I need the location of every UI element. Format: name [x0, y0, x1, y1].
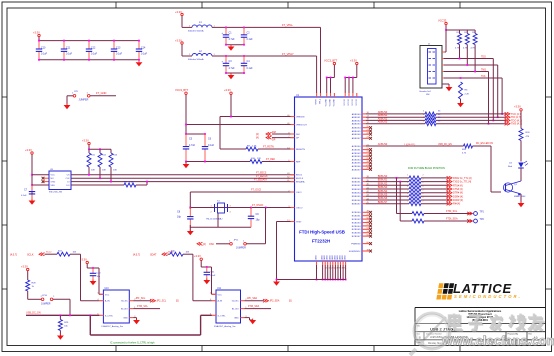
- svg-text:0: 0: [423, 117, 424, 119]
- offpage connector TDO: [505, 119, 523, 123]
- capacitor C14: [136, 41, 148, 60]
- svg-text:A_IN: A_IN: [105, 300, 110, 303]
- wire S_CTRL link to U11: [90, 315, 212, 335]
- svg-text:2.2K: 2.2K: [252, 145, 257, 147]
- svg-text:FT_VPLL: FT_VPLL: [282, 23, 294, 27]
- capacitor C4 0.1uF: [241, 56, 253, 73]
- green note FOR FUTURE BUILD POSITION: [408, 167, 445, 170]
- wire BDBUS2 row: [366, 184, 448, 186]
- svg-text:FT_EEDATA: FT_EEDATA: [254, 179, 267, 182]
- svg-text:ACBUS7: ACBUS7: [352, 168, 362, 171]
- ground (Q1): [518, 202, 525, 208]
- wire JTAG drop TDI: [497, 65, 499, 118]
- wire JP11 to OSCO: [246, 208, 265, 244]
- svg-text:TXD2 0x_TTL [4]: TXD2 0x_TTL [4]: [453, 181, 471, 184]
- ic U10 pin names: [105, 294, 128, 319]
- ic U1 top pin VCORE: [330, 93, 332, 106]
- wire R28 to JP10: [28, 298, 42, 300]
- wire TEST to ground: [276, 222, 291, 281]
- junction dots C12: [88, 40, 90, 61]
- junction dots OSCO row: [189, 207, 266, 209]
- ground (J1): [446, 86, 453, 92]
- offpage connector SCLK: [10, 253, 45, 257]
- net label FT_VPLL: [282, 23, 294, 27]
- svg-text:OSCO: OSCO: [296, 207, 303, 209]
- svg-text:JPF_SDA: JPF_SDA: [247, 297, 258, 300]
- ic U1 right pin BCBUS6: [352, 231, 372, 235]
- wire J1 row TDI: [444, 64, 498, 66]
- wire RESETN row: [220, 148, 295, 150]
- ic U1 right pin ADBUS5: [352, 129, 372, 133]
- wire OSCI row: [190, 191, 294, 193]
- eeprom U9 93LC56C body: [49, 169, 71, 194]
- wire TCK row: [366, 113, 506, 115]
- svg-text:FT_OSCI: FT_OSCI: [251, 189, 261, 192]
- svg-text:G0_NC: G0_NC: [232, 301, 239, 303]
- net label ADBUS0: [378, 111, 388, 114]
- resistor R11 10K: [87, 149, 96, 175]
- svg-text:DO: DO: [66, 185, 70, 187]
- svg-text:FSA4157_Analog_Sw: FSA4157_Analog_Sw: [214, 325, 236, 328]
- wire J1 row TMS: [444, 71, 489, 73]
- net label BDBUS7: [378, 201, 388, 204]
- resistor RN BDBUS3: [407, 186, 424, 191]
- svg-text:FT_EECS: FT_EECS: [256, 173, 267, 175]
- svg-text:JUMPER: JUMPER: [79, 98, 89, 101]
- power VCC3_BTT (VCORE): [324, 58, 338, 64]
- svg-text:DTR# [4]: DTR# [4]: [453, 192, 463, 195]
- logo LATTICE text: [453, 281, 512, 296]
- junction dots C11: [63, 40, 65, 61]
- svg-text:VPLL: VPLL: [320, 98, 322, 104]
- svg-text:USB_DC_EN: USB_DC_EN: [438, 144, 452, 146]
- ground (C41): [203, 279, 210, 285]
- resistor RN BDBUS7: [407, 201, 424, 206]
- titleblock company text: [459, 310, 502, 322]
- svg-text:BDBUS5: BDBUS5: [352, 196, 362, 198]
- junction VCC33 rail: [445, 29, 447, 31]
- ic U1 right pin BDBUS3: [352, 187, 370, 191]
- svg-text:0: 0: [423, 120, 424, 122]
- logo SEMICONDUCTOR text: [454, 294, 522, 299]
- svg-text:SCLK: SCLK: [27, 253, 34, 256]
- jumper JP10: [41, 295, 56, 306]
- wire JP9 to ground: [67, 96, 73, 105]
- svg-text:IC connected to A when S_CTRL: IC connected to A when S_CTRL is high: [110, 341, 155, 344]
- net label QM-021 note: [404, 144, 415, 146]
- ic U1 right pin BCBUS7: [352, 234, 372, 238]
- junction dots USB_DC_ON: [60, 314, 92, 316]
- svg-text:BCBUS3: BCBUS3: [352, 222, 362, 224]
- ic U1 right pin BCBUS2: [352, 217, 372, 221]
- power +3.3V (VREGIN): [224, 88, 232, 94]
- wire bottom rail of cap bank: [39, 59, 139, 61]
- resistor R14 33: [423, 111, 441, 116]
- wire BDBUS6 row: [366, 199, 448, 201]
- ic U1 right pin ACBUS4: [352, 158, 372, 162]
- offpage connector TXD2: [447, 180, 472, 184]
- power +3.3V (pullups R11-R13): [82, 139, 90, 150]
- svg-text:FT_EECLK: FT_EECLK: [256, 176, 268, 178]
- wire EECS row (CS to chip): [71, 174, 295, 176]
- svg-text:1: 1: [407, 197, 408, 199]
- ic U1 right pin ADBUS7: [352, 137, 372, 141]
- svg-text:[4,5,7]: [4,5,7]: [10, 253, 17, 256]
- svg-text:+3.3V: +3.3V: [175, 39, 182, 43]
- svg-text:CLK: CLK: [65, 178, 70, 180]
- svg-text:TDO: TDO: [481, 56, 486, 58]
- ic U1 right pin ADBUS0: [352, 112, 370, 116]
- svg-text:FTDI_SCL: FTDI_SCL: [137, 306, 149, 308]
- capacitor C7 0.1uF: [21, 185, 35, 201]
- svg-text:[4,5,7]: [4,5,7]: [133, 253, 140, 256]
- svg-text:1 (QM-021): 1 (QM-021): [404, 144, 415, 146]
- ic U1 left pin DP: [288, 136, 299, 140]
- ic U11 pin names: [218, 294, 240, 319]
- offpage connector RXD2: [447, 176, 472, 180]
- titleblock doc row: [417, 332, 538, 339]
- ic U1 right pin BCBUS5: [352, 228, 372, 232]
- titleblock cell dividers: [424, 332, 527, 346]
- wire SDAT to U11 A_IN: [193, 254, 212, 301]
- svg-text:ACBUS1: ACBUS1: [352, 149, 362, 152]
- svg-text:BDBUS0: BDBUS0: [352, 178, 362, 180]
- power VCC3_BTT (left): [175, 88, 189, 94]
- svg-text:SM: SM: [426, 94, 429, 96]
- wire VCCIO rail: [344, 65, 357, 93]
- svg-text:C10: C10: [41, 46, 46, 49]
- offpage connector OSC enable: [197, 242, 214, 246]
- wire VCC33 vertical: [442, 25, 446, 52]
- ic U1 top pin VPLL: [320, 93, 322, 104]
- svg-text:7M-12.000MAAJ: 7M-12.000MAAJ: [206, 217, 222, 220]
- net label USB_DC_ON: [26, 312, 41, 315]
- wire BDBUS7 row: [366, 203, 448, 205]
- svg-text:VCORE: VCORE: [333, 98, 335, 106]
- wire pullup rail J1: [446, 29, 475, 31]
- no-connect EEPROM NU pin: [42, 177, 49, 180]
- wire JTAG drop TMS: [488, 72, 490, 125]
- svg-text:FT_REF: FT_REF: [266, 158, 276, 161]
- net label FT_OSCO: [252, 204, 263, 207]
- svg-text:ADBUS3: ADBUS3: [352, 123, 362, 126]
- resistor R24 10K: [57, 251, 77, 257]
- svg-text:0.1uF: 0.1uF: [208, 144, 215, 147]
- svg-text:600ohm 500mA: 600ohm 500mA: [188, 58, 204, 61]
- svg-text:B1_NO: B1_NO: [121, 309, 128, 311]
- offpage connector DM: [256, 131, 276, 136]
- junction dots pullups on rows: [88, 174, 112, 183]
- svg-text:2: 2: [423, 201, 424, 203]
- svg-text:VREGOUT: VREGOUT: [296, 124, 307, 126]
- resistor RN BDBUS6: [407, 197, 424, 202]
- svg-text:MMBT3904: MMBT3904: [514, 196, 526, 198]
- svg-text:S_CTRL: S_CTRL: [218, 315, 227, 317]
- svg-text:FSA4157_Analog_Sw: FSA4157_Analog_Sw: [102, 325, 124, 328]
- svg-text:SCL2: SCL2: [46, 251, 52, 253]
- svg-text:BDBUS7: BDBUS7: [378, 201, 388, 204]
- svg-text:BDBUS1: BDBUS1: [378, 179, 388, 182]
- svg-text:4.7K: 4.7K: [455, 48, 460, 50]
- wire R30 to D2: [520, 141, 522, 162]
- svg-text:0.1uF: 0.1uF: [66, 53, 73, 56]
- wire JP10 to S_CTRL rail: [53, 299, 70, 315]
- svg-text:JUMPER: JUMPER: [41, 304, 51, 306]
- wire Q1 emitter to ground: [520, 194, 522, 203]
- ic U1 left pin RESETN: [287, 147, 305, 151]
- svg-text:Lattice Semiconductor Applicat: Lattice Semiconductor Applications: [459, 310, 502, 313]
- offpage connector DSR#: [447, 195, 464, 199]
- svg-text:2.2K: 2.2K: [129, 181, 134, 183]
- svg-text:CTS# [4]: CTS# [4]: [453, 188, 463, 191]
- junction dots on VPLL rail: [225, 27, 245, 29]
- svg-text:ADBUS6: ADBUS6: [352, 133, 362, 136]
- net label TCK (header): [481, 76, 486, 78]
- ic U1 right pin ACBUS5: [352, 161, 372, 165]
- svg-text:+3.3V: +3.3V: [80, 257, 87, 261]
- resistor RN BDBUS0: [407, 175, 424, 180]
- ground (C40): [90, 280, 97, 286]
- ic U1 left pin REF: [288, 160, 301, 164]
- resistor R10 12K: [250, 158, 262, 164]
- svg-text:ACBUS5: ACBUS5: [352, 162, 362, 165]
- ic U1 right pin BDBUS5: [352, 195, 370, 199]
- ic U1 top pin VCORE: [326, 93, 328, 106]
- resistor RN BDBUS2: [407, 182, 424, 187]
- ic U1 right pin ADBUS2: [352, 119, 370, 123]
- ic U1 right pin ACBUS6: [352, 164, 372, 168]
- svg-text:ADBUS1: ADBUS1: [352, 116, 362, 119]
- net label BDBUS5: [378, 193, 388, 196]
- svg-text:+3.3V: +3.3V: [175, 10, 182, 14]
- junction BDBUS0 tap: [396, 177, 398, 179]
- power +3.3V (U10): [80, 257, 88, 263]
- titleblock title row: [417, 325, 457, 332]
- svg-text:1: 1: [407, 186, 408, 188]
- resistor R2 4.7K: [463, 30, 469, 65]
- wire FTDI_SDA drop: [399, 182, 401, 221]
- wire VREGOUT row: [186, 124, 295, 126]
- wire to JP11: [216, 243, 230, 245]
- ic U1 left pin DM: [288, 132, 299, 136]
- svg-text:ADBUS7: ADBUS7: [352, 137, 362, 140]
- wire U10 G0 out: [133, 300, 151, 302]
- svg-text:TP2: TP2: [480, 218, 485, 221]
- junction dots C14: [138, 40, 140, 61]
- svg-text:ACBUS6: ACBUS6: [352, 165, 362, 168]
- net label JPF_SDA: [247, 297, 258, 300]
- junction (VCC3_BTT to VREGOUT): [185, 124, 187, 126]
- net label FT_GND: [96, 91, 107, 95]
- ic U10 pin stubs: [97, 293, 136, 318]
- wire JTAG drop TDO: [492, 59, 494, 122]
- svg-text:Header 5x2: Header 5x2: [420, 90, 432, 93]
- wire REF row / ground rail: [185, 161, 294, 163]
- crystal X1 12MHz: [206, 200, 232, 220]
- ic U11 pin stubs: [210, 293, 248, 318]
- svg-text:RESETN: RESETN: [296, 149, 305, 151]
- svg-text:[4]: [4]: [203, 243, 206, 246]
- capacitor C10: [36, 41, 48, 60]
- svg-text:[4]: [4]: [256, 133, 259, 136]
- wire VCC3_BTT vertical: [185, 94, 187, 134]
- resistor R30 470: [519, 129, 530, 141]
- svg-text:SUSPEND#: SUSPEND#: [349, 251, 362, 253]
- svg-text:ADBUS2: ADBUS2: [352, 119, 362, 122]
- svg-text:BCBUS1: BCBUS1: [352, 216, 362, 218]
- ic U1 left pin VREGOUT: [287, 123, 307, 127]
- net label TMS (header): [481, 69, 486, 71]
- svg-text:NU: NU: [51, 178, 55, 180]
- net label FTDI_SCL: [446, 210, 473, 215]
- net label SDA2: [168, 250, 174, 253]
- wire TMS row: [366, 123, 506, 125]
- wire BDBUS5 row: [366, 195, 448, 197]
- net label BDBUS2: [378, 182, 388, 185]
- svg-text:USB_DC_ON: USB_DC_ON: [26, 312, 41, 315]
- wire TDI row: [366, 116, 506, 118]
- net label FTDI_SDA (U11): [248, 305, 260, 308]
- svg-text:RXD2 0x_TTL [4]: RXD2 0x_TTL [4]: [453, 177, 472, 180]
- power +3.3V (L2): [175, 39, 183, 57]
- svg-text:BDBUS0: BDBUS0: [378, 175, 388, 178]
- svg-text:+3.3V: +3.3V: [350, 58, 357, 62]
- offpage connector CTS#: [447, 187, 463, 191]
- wire J1 ground pin: [442, 84, 449, 87]
- wire OSCO row: [190, 207, 294, 209]
- svg-text:BCBUS4: BCBUS4: [352, 226, 362, 228]
- svg-text:FT_GND: FT_GND: [96, 91, 107, 95]
- power +3.3V (R28): [21, 264, 29, 270]
- svg-text:BCBUS5: BCBUS5: [352, 229, 362, 231]
- net label FT_EEDATA: [254, 179, 267, 182]
- resistor RN BDBUS5: [407, 193, 424, 198]
- capacitor C13: [111, 41, 123, 60]
- svg-text:93LC56C-SN: 93LC56C-SN: [49, 192, 62, 194]
- svg-text:BDBUS5: BDBUS5: [378, 193, 388, 196]
- net label SCL2: [46, 251, 52, 253]
- svg-text:[4]: [4]: [256, 137, 259, 140]
- svg-text:B1_NO: B1_NO: [232, 309, 239, 311]
- svg-text:4.7uF: 4.7uF: [229, 67, 236, 70]
- capacitor C8 16pF: [177, 208, 194, 229]
- svg-text:EECLK: EECLK: [296, 178, 304, 180]
- net label FT_REF: [266, 158, 276, 161]
- wire U11 B1 out (FTDI_SDA): [244, 308, 271, 310]
- ic U1 top pin VCORE: [333, 93, 335, 106]
- svg-text:DM: DM: [296, 134, 300, 136]
- svg-text:ADBUS3: ADBUS3: [378, 121, 388, 124]
- svg-text:RI# [4]: RI# [4]: [453, 203, 460, 206]
- ic U1 FT2232H body: [295, 97, 363, 261]
- ic U1 top pin VPHY: [316, 93, 318, 105]
- wire chip ground rail: [277, 279, 347, 281]
- ic U1 left pin EEDATA: [287, 180, 305, 184]
- header J1 body: [420, 44, 443, 96]
- ic U1 right pin BDBUS2: [352, 184, 370, 188]
- svg-text:0.1uF: 0.1uF: [21, 195, 27, 197]
- ic U1 right pin ACBUS7: [352, 168, 372, 172]
- svg-text:2: 2: [423, 190, 424, 192]
- no-connect EEPROM ORG pin: [42, 180, 49, 183]
- svg-text:VCC3_BTT: VCC3_BTT: [324, 58, 338, 62]
- net label USB_DC_EN: [438, 144, 452, 146]
- capacitor C40 10n: [90, 268, 101, 281]
- inductor L2: [188, 50, 216, 61]
- svg-text:G0_NC: G0_NC: [121, 301, 128, 303]
- svg-text:EECS: EECS: [296, 175, 302, 177]
- svg-text:+3.3V: +3.3V: [25, 148, 32, 152]
- wire USB_DC_ON rail: [26, 314, 99, 316]
- ic U1 right pin ACBUS1: [352, 148, 372, 152]
- net label BDBUS4: [378, 190, 388, 193]
- svg-text:1: 1: [407, 178, 408, 180]
- offpage connector JP2_SCL: [150, 299, 179, 303]
- svg-text:VCCIO: VCCIO: [352, 99, 354, 106]
- resistor R17 33: [423, 120, 441, 125]
- offpage connector TDI: [505, 116, 521, 120]
- wire to Q1 base: [491, 146, 501, 192]
- resistor R16 33: [423, 117, 441, 122]
- svg-text:U10: U10: [104, 288, 109, 290]
- svg-text:4.7K: 4.7K: [463, 48, 468, 50]
- svg-text:JPF_SCL: JPF_SCL: [136, 298, 147, 300]
- resistor RN BDBUS4: [407, 190, 424, 195]
- svg-text:C13: C13: [116, 46, 121, 49]
- svg-text:BCBUS2: BCBUS2: [352, 219, 362, 221]
- ic U1 top pin VCCIO: [356, 93, 358, 106]
- svg-text:1: 1: [407, 190, 408, 192]
- watermark elecfans text: [441, 333, 554, 349]
- net label FTDI_SDA: [446, 217, 473, 222]
- ic U1 right pin SUSPEND#: [349, 249, 372, 253]
- svg-text:2.2K: 2.2K: [465, 94, 470, 96]
- ic U1 right pin ACBUS2: [352, 151, 372, 155]
- svg-text:[5]: [5]: [176, 301, 179, 303]
- ground (U10): [133, 319, 140, 325]
- svg-text:10K: 10K: [186, 251, 190, 253]
- net label ADBUS3: [378, 121, 388, 124]
- svg-text:PWREN#: PWREN#: [351, 244, 361, 246]
- ic U1 right pin BCBUS1: [352, 214, 372, 218]
- svg-text:16p: 16p: [256, 218, 261, 221]
- ic U1 top pin VCCIO: [352, 93, 354, 106]
- svg-text:1: 1: [407, 175, 408, 177]
- wire RESETN pullup vertical: [219, 117, 221, 150]
- svg-text:BCBUS7: BCBUS7: [352, 236, 362, 238]
- wire DO row: [71, 184, 124, 186]
- wire VPHY feed vertical: [316, 56, 318, 93]
- net label JPF_SCL: [136, 298, 147, 300]
- svg-text:4.7uF: 4.7uF: [189, 144, 196, 147]
- wire FTDI_SDA row: [400, 220, 472, 222]
- svg-text:TP1: TP1: [480, 211, 485, 214]
- svg-text:10K: 10K: [91, 169, 95, 171]
- svg-text:BDBUS3: BDBUS3: [352, 189, 362, 191]
- svg-text:VCC3_BTT: VCC3_BTT: [175, 88, 189, 92]
- eeprom U9 pin names: [51, 175, 71, 187]
- svg-text:BCBUS0: BCBUS0: [352, 212, 362, 214]
- svg-text:0.1uF: 0.1uF: [247, 38, 254, 41]
- svg-text:FTDI High-Speed USB: FTDI High-Speed USB: [299, 230, 345, 235]
- ground (C1 C2): [228, 45, 235, 51]
- svg-text:+3.3V: +3.3V: [33, 31, 40, 35]
- svg-text:C12: C12: [91, 46, 96, 49]
- svg-text:1: 1: [407, 193, 408, 195]
- wire U10 B1 out (FTDI_SCL): [133, 308, 160, 310]
- svg-text:12K: 12K: [257, 158, 261, 160]
- svg-text:JP10: JP10: [42, 295, 48, 297]
